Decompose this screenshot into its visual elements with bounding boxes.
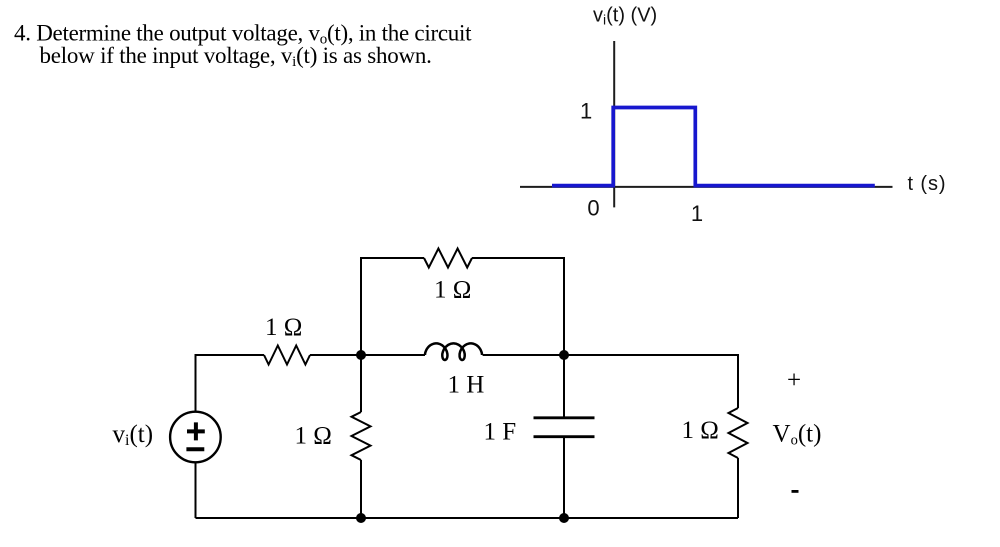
wire: bottom rail: [196, 517, 739, 519]
wire: node B down to capacitor: [563, 355, 565, 418]
svg-text:vi(t) (V): vi(t) (V): [593, 4, 657, 27]
wire: node A down to R3: [360, 355, 362, 412]
svg-text:1: 1: [580, 98, 592, 123]
node B junction dot: [559, 350, 569, 360]
svg-text:below if the input voltage, vi: below if the input voltage, vi(t) is as …: [40, 43, 432, 70]
wire: node A to inductor: [361, 354, 425, 356]
resistor R4 load 1 ohm: [729, 408, 748, 458]
wire: left rail bottom (source to bottom rail): [195, 462, 197, 518]
resistor R1 series 1 ohm: [264, 346, 310, 365]
wire: R1 to node A: [310, 354, 361, 356]
svg-text:1 Ω: 1 Ω: [265, 314, 302, 341]
wire: left rail top (source to main line) and main line to R1: [196, 355, 265, 412]
svg-text:1 Ω: 1 Ω: [295, 422, 332, 449]
input pulse waveform vi(t): [552, 108, 875, 186]
svg-text:1 H: 1 H: [448, 372, 485, 399]
capacitor C1 top plate: [534, 416, 595, 419]
svg-text:1: 1: [691, 201, 703, 226]
svg-text:+: +: [787, 367, 801, 394]
label minus (output polarity): [792, 490, 799, 493]
voltage source VS circle: [170, 412, 221, 463]
graph y-axis: [613, 41, 615, 207]
resistor R3 shunt 1 ohm: [352, 412, 371, 460]
graph x-axis: [520, 186, 893, 188]
wire: top branch right vertical: [472, 258, 564, 355]
svg-text:1 Ω: 1 Ω: [682, 417, 719, 444]
wire: inductor to node B: [483, 354, 564, 356]
svg-text:0: 0: [587, 196, 599, 221]
capacitor C1 bottom plate: [534, 435, 595, 438]
svg-text:1 F: 1 F: [484, 418, 517, 445]
wire: capacitor down to bottom rail: [563, 437, 565, 518]
svg-text:vi(t): vi(t): [113, 421, 154, 449]
svg-text:1 Ω: 1 Ω: [434, 276, 471, 303]
wire: R3 down to bottom rail: [360, 460, 362, 518]
svg-text:Vo(t): Vo(t): [773, 420, 822, 448]
voltage source plus sign: [187, 422, 205, 440]
wire: node B to right rail top: [564, 355, 738, 408]
wire: R4 down to bottom right corner: [737, 458, 739, 518]
voltage source minus sign: [186, 447, 204, 451]
wire: top branch left vertical: [361, 258, 424, 355]
node: bottom junction under A: [356, 513, 366, 523]
svg-text:t (s): t (s): [908, 173, 947, 195]
node A junction dot: [356, 350, 366, 360]
inductor L1 1 H: [425, 343, 482, 360]
node: bottom junction under B: [559, 513, 569, 523]
resistor R2 top 1 ohm: [424, 249, 472, 268]
